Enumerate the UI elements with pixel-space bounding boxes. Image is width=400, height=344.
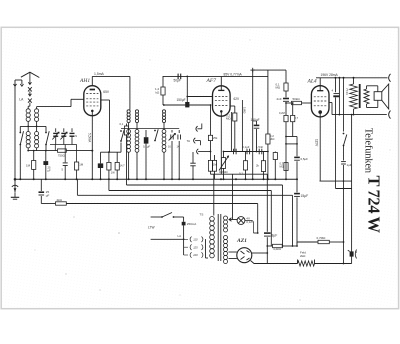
screen node bar	[101, 151, 122, 153]
svg-text:5,5mA: 5,5mA	[88, 133, 92, 143]
svg-text:TA: TA	[187, 139, 191, 143]
bottom wire	[251, 261, 298, 264]
cap 0.5uF	[296, 144, 298, 156]
cap 25uF	[39, 191, 45, 193]
fuse	[183, 217, 185, 222]
transformer secondary upper	[224, 216, 228, 220]
cap C12	[341, 161, 346, 163]
cathode AL4	[319, 112, 321, 181]
svg-text:0,1µF: 0,1µF	[143, 145, 150, 149]
resistor 2k	[56, 202, 67, 205]
speaker jack bottom	[389, 111, 391, 119]
cap C10b 1.5nF	[258, 149, 260, 155]
rectifier AZ1	[237, 248, 252, 263]
cathode wire AH1	[91, 111, 93, 179]
wire cathode row	[28, 150, 58, 152]
node link	[286, 136, 297, 138]
svg-text:50µF: 50µF	[174, 79, 181, 83]
volume pot 0.2M	[223, 152, 225, 158]
coil L4	[36, 126, 38, 131]
earth lead wire	[14, 80, 16, 192]
LA arrester	[15, 79, 22, 81]
svg-text:0,7MΩ: 0,7MΩ	[317, 236, 327, 240]
svg-text:TS: TS	[200, 213, 204, 217]
HT line L4	[40, 179, 42, 191]
mains wire top	[151, 216, 162, 218]
svg-text:14,7: 14,7	[120, 164, 126, 168]
resistor R19	[284, 163, 288, 171]
bus 188	[336, 188, 352, 190]
cap blob 0.1uF	[100, 152, 102, 163]
resistor 50k	[286, 102, 292, 104]
wire step	[296, 242, 298, 246]
wire coil join	[27, 121, 29, 126]
AZ1 output wire	[252, 252, 267, 254]
capacitor 5nF	[63, 162, 68, 164]
svg-text:7744: 7744	[345, 88, 349, 95]
cap C6	[178, 130, 180, 133]
output rail	[316, 77, 387, 79]
cap C11 screen bypass	[335, 78, 337, 92]
speaker return wire	[332, 114, 387, 116]
svg-text:LA: LA	[178, 234, 182, 238]
svg-text:1W: 1W	[111, 171, 115, 175]
svg-text:25k: 25k	[213, 136, 218, 140]
svg-text:0,5µF: 0,5µF	[301, 157, 309, 161]
svg-text:85V 0,77mA: 85V 0,77mA	[224, 73, 243, 77]
svg-text:0,1µF: 0,1µF	[242, 145, 249, 149]
svg-text:15µF: 15µF	[301, 194, 309, 198]
coupling wire	[224, 151, 269, 153]
wire v 339	[338, 78, 340, 115]
resistor R11	[245, 152, 247, 161]
wire top link	[253, 69, 286, 71]
svg-text:Telefunken: Telefunken	[362, 128, 373, 173]
resistor R7	[208, 160, 212, 171]
resistor R18	[292, 103, 294, 115]
tube AL4	[311, 86, 329, 117]
anode wire AF7	[221, 75, 268, 77]
cap 50uF	[163, 75, 221, 77]
band crossbar	[20, 125, 46, 127]
screen stub	[329, 102, 332, 104]
avc wire	[286, 143, 297, 145]
capacitor 25uF	[45, 151, 47, 162]
svg-text:1M: 1M	[79, 163, 84, 167]
wire 275 column	[274, 152, 276, 153]
resistor R3 1W	[108, 152, 110, 162]
tube AH1	[84, 86, 101, 116]
speaker jack top	[389, 74, 391, 82]
cap C9 0.1uF	[246, 149, 248, 155]
output terminal	[350, 251, 354, 256]
heater line	[211, 173, 268, 175]
svg-text:1,5nF: 1,5nF	[256, 145, 263, 149]
resistor R4 14.7	[116, 152, 118, 162]
paper specks	[74, 217, 75, 218]
svg-text:65V: 65V	[103, 90, 110, 94]
trimmer link bar	[50, 144, 72, 146]
svg-text:µF: µF	[48, 168, 52, 172]
trimmer C2	[63, 128, 65, 132]
coil lower right	[135, 130, 139, 134]
svg-text:N: N	[75, 134, 77, 138]
resistor R15 0.2M	[267, 70, 269, 134]
speaker loop	[367, 85, 378, 87]
resistor R9 1.2k	[162, 76, 164, 87]
svg-text:196V 28mA: 196V 28mA	[321, 73, 339, 77]
mains wire bottom	[151, 238, 184, 240]
HT wire 246	[267, 245, 272, 247]
svg-text:LTW: LTW	[148, 226, 155, 230]
resistor 750	[58, 149, 67, 152]
padder C3	[71, 128, 73, 132]
osc coil lower	[162, 130, 166, 134]
bus 181	[320, 180, 352, 182]
speaker	[374, 92, 382, 101]
tube AF7	[213, 86, 231, 116]
wire return down	[351, 115, 353, 252]
voltage taps	[184, 238, 188, 240]
lamp wire right	[245, 221, 254, 234]
svg-text:MΩ: MΩ	[280, 165, 284, 169]
svg-text:62V: 62V	[234, 97, 241, 101]
svg-text:4,2kΩ: 4,2kΩ	[273, 247, 282, 251]
wire v 343 switch	[343, 78, 345, 132]
ground	[14, 178, 17, 181]
HT line L2	[108, 179, 110, 190]
svg-text:µF: µF	[46, 194, 50, 198]
switch S5	[343, 133, 345, 135]
resistor R6 0.3M	[210, 105, 212, 135]
svg-text:0,1: 0,1	[239, 172, 243, 176]
junction cross	[250, 69, 255, 71]
main ground bus	[15, 178, 297, 180]
wire AF7 anode right	[230, 105, 235, 107]
output secondary	[364, 89, 369, 104]
band switch S1	[19, 126, 21, 132]
coil L3	[27, 126, 29, 131]
svg-text:2kΩ: 2kΩ	[57, 198, 63, 202]
svg-text:0,1: 0,1	[120, 122, 124, 126]
band switch S2	[45, 126, 47, 132]
svg-text:115V: 115V	[314, 139, 318, 147]
resistor R10 0.2M	[234, 106, 236, 113]
svg-text:1µF: 1µF	[347, 163, 352, 167]
svg-text:150µF: 150µF	[251, 118, 260, 122]
HT line L3	[76, 179, 78, 195]
svg-text:AF7: AF7	[206, 78, 217, 84]
resistor R8	[212, 160, 216, 171]
switch S3	[120, 130, 122, 132]
svg-text:2nF: 2nF	[277, 97, 282, 101]
svg-text:250mA: 250mA	[187, 222, 197, 226]
osc coil upper	[162, 110, 165, 113]
svg-text:2kΩ: 2kΩ	[300, 254, 306, 258]
svg-text:750Ω: 750Ω	[58, 153, 66, 157]
svg-text:8µF: 8µF	[272, 234, 278, 238]
resistor R20 avc	[126, 124, 128, 127]
TA pickup jacks	[196, 126, 198, 131]
svg-text:50kΩ: 50kΩ	[293, 97, 301, 101]
cap C10 grid AL4	[285, 91, 287, 97]
cathode AF7	[220, 112, 222, 175]
antenna coil L1	[27, 106, 29, 109]
field winding 7744	[353, 78, 355, 84]
anode wire AH1	[92, 75, 130, 77]
svg-text:AL4: AL4	[307, 78, 317, 85]
resistor R17 grid leak	[284, 115, 288, 121]
lamp wire	[229, 219, 237, 221]
field coil Feld 2k	[297, 260, 299, 264]
svg-text:1,5mA: 1,5mA	[94, 72, 105, 76]
trimmer C5	[171, 130, 173, 133]
HT line L1	[126, 179, 128, 185]
transformer core	[217, 214, 219, 261]
resistor R16 0.1M	[285, 70, 287, 83]
resistor R12	[263, 152, 265, 161]
mains switch	[161, 216, 163, 218]
resistor R2 1M	[75, 162, 79, 170]
cap 15uF	[294, 193, 300, 195]
cap 0.1uF block	[144, 137, 149, 143]
wire grid top	[37, 106, 71, 108]
cap C8	[233, 149, 235, 155]
svg-text:125: 125	[193, 245, 198, 249]
transformer secondary lower	[224, 236, 228, 240]
cap 150uF	[163, 104, 211, 106]
transformer primary	[210, 217, 215, 222]
cap 8uF	[266, 174, 268, 232]
svg-text:150µF: 150µF	[177, 98, 186, 102]
heater stubs	[229, 251, 237, 253]
IF transformer secondary	[135, 110, 138, 113]
svg-text:AH1: AH1	[79, 78, 90, 84]
svg-text:1MΩ: 1MΩ	[242, 107, 246, 114]
svg-text:T 724 W: T 724 W	[365, 176, 384, 234]
transformer core bar	[359, 84, 361, 108]
trimmer C1	[55, 128, 57, 132]
antenna	[21, 72, 39, 77]
antenna coil L2	[36, 107, 38, 109]
cap C7	[190, 162, 195, 164]
dial lamp	[237, 217, 245, 225]
arrester chain	[28, 82, 31, 84]
svg-text:110: 110	[193, 238, 198, 242]
svg-text:AZ1: AZ1	[236, 238, 247, 244]
svg-text:1M: 1M	[26, 164, 31, 168]
resistor R1 1M	[33, 151, 35, 161]
svg-text:0,2M: 0,2M	[279, 111, 285, 115]
screen feed stub	[101, 99, 110, 101]
resistor 0.7M	[318, 240, 329, 243]
wires coil tops	[128, 123, 130, 130]
svg-text:220: 220	[192, 253, 198, 257]
IF transformer primary	[127, 110, 130, 113]
switch S4	[154, 130, 156, 132]
cap 150uF second	[256, 121, 258, 125]
junction	[186, 76, 188, 102]
svg-text:0,7: 0,7	[295, 116, 299, 120]
coil lower left	[127, 130, 131, 134]
resistor 4.2k	[273, 244, 283, 247]
wire 252 down	[252, 70, 254, 179]
